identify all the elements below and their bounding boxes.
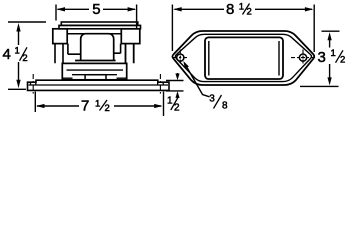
front view: saddle foot bottom lines [62, 77, 126, 79]
svg-text:2: 2 [340, 55, 345, 66]
top view: center opening [205, 37, 283, 79]
front view: web line between ears [67, 33, 121, 35]
front view: saddle center pedestal [85, 75, 106, 80]
front view: base plate [28, 80, 170, 90]
dimension "7 1/2" text [81, 98, 110, 115]
dimension "8 1/2" fraction slash [243, 4, 250, 15]
dimension "3 1/2" fraction slash [336, 50, 344, 62]
dimension "4 1/2" fraction slash [20, 47, 28, 61]
dimension "5" text [92, 1, 100, 18]
svg-text:2: 2 [174, 103, 180, 114]
top view: left hole crosshair [173, 50, 188, 65]
dimension "8 1/2" text [226, 1, 252, 18]
dimension "4 1/2" extension lines [8, 22, 46, 89]
svg-text:2: 2 [105, 103, 110, 114]
svg-text:5: 5 [92, 1, 100, 18]
dimension "3/8" text [209, 94, 228, 112]
dimension "1/2" plate thickness arrows [175, 73, 179, 98]
svg-text:1: 1 [95, 99, 100, 110]
dimension "3/8" fraction slash [214, 95, 222, 109]
front view: base plate left bolt ticks [31, 82, 36, 85]
top view: left bolt hole [177, 54, 184, 61]
dimension "3 1/2" line and arrows [327, 32, 331, 85]
top view: inner plate outline [175, 34, 311, 81]
svg-text:1: 1 [331, 48, 336, 59]
front view: right inner step [114, 44, 121, 54]
dimension "4 1/2" line and arrows [16, 23, 20, 88]
front view: base plate right bolt ticks [158, 82, 164, 85]
svg-text:4: 4 [3, 46, 11, 63]
top view: right bolt hole [299, 54, 306, 61]
dimension "1/2" plate thickness text [167, 96, 180, 114]
front view: top cap upper bar [61, 22, 138, 25]
top view: right hole crosshair [291, 50, 317, 65]
dimension "1/2" fraction slash [171, 97, 179, 111]
dimension "3/8" leader with arrow [183, 61, 209, 97]
front view: right bolt centerline [159, 74, 161, 94]
front view: left bolt centerline [32, 74, 34, 94]
front view: center window (rounded) [81, 34, 114, 61]
front view: top cap lower bar [59, 25, 141, 28]
svg-text:8: 8 [226, 1, 234, 18]
dimension "5" extension lines [56, 5, 137, 29]
front view: right leg lines [126, 44, 134, 64]
front view: left ear block [53, 29, 67, 44]
front view: saddle body [62, 63, 126, 79]
dimension "4 1/2" text [3, 46, 28, 64]
svg-text:3: 3 [318, 49, 326, 66]
dimension "5" line and arrows [57, 7, 137, 11]
dimension "3 1/2" extension lines [300, 31, 340, 86]
svg-text:7: 7 [81, 98, 89, 115]
dimension "3 1/2" text [318, 48, 346, 66]
front view: right ear block [121, 29, 140, 44]
dimension "8 1/2" extension lines [172, 5, 314, 53]
front view: left leg lines [55, 44, 63, 64]
svg-text:3: 3 [209, 94, 215, 105]
top view: opening right lip [278, 41, 280, 76]
front view: rubber top line under window [75, 60, 116, 62]
front view: left inner step [68, 44, 81, 55]
dimension "1/2" plate thickness extension lines [166, 81, 184, 91]
dimension "7 1/2" line and arrows [36, 104, 163, 108]
svg-text:1: 1 [167, 96, 173, 107]
dimension "7 1/2" extension lines [35, 92, 163, 117]
svg-text:1: 1 [15, 46, 20, 57]
top view: outer plate outline [172, 31, 314, 85]
dimension "7 1/2" fraction slash [100, 100, 108, 111]
top view: opening left lip [208, 41, 210, 76]
svg-text:1: 1 [239, 2, 244, 13]
dimension "8 1/2" line and arrows [173, 7, 313, 11]
svg-text:8: 8 [222, 101, 228, 112]
